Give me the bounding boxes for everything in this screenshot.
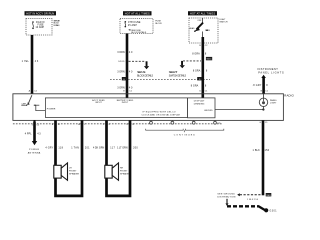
svg-text:POWER: POWER <box>29 149 39 151</box>
value label 3 ORN 40 (middle) <box>117 70 133 73</box>
svg-text:SEE GROUND: SEE GROUND <box>217 194 235 196</box>
wire (switch to power input) <box>36 105 56 110</box>
unused pin 3 <box>192 120 195 124</box>
svg-text:G: G <box>259 122 261 124</box>
svg-text:FRONT: FRONT <box>120 170 128 172</box>
svg-text:SPEAKER: SPEAKER <box>120 173 130 176</box>
svg-text:8 GRA: 8 GRA <box>192 52 200 55</box>
svg-text:C2: C2 <box>37 124 40 126</box>
svg-text:1 TAN: 1 TAN <box>71 147 79 150</box>
svg-text:40: 40 <box>129 86 133 89</box>
svg-text:FRONT: FRONT <box>69 170 77 172</box>
splice S301 <box>266 193 272 197</box>
value label 8 GRA 8 (upper) <box>192 52 207 55</box>
svg-text:DETAILS: DETAILS <box>54 24 61 27</box>
svg-text:E: E <box>123 91 125 93</box>
light switch box <box>189 18 218 43</box>
wire loop RH front speaker <box>107 120 131 195</box>
speaker SPK2 RH FRONT SPEAKER <box>105 163 131 180</box>
pin E connector C1 label <box>123 91 132 93</box>
svg-text:SWITCH DETAILS: SWITCH DETAILS <box>169 75 187 78</box>
label LIGHT SWITCH <box>219 19 227 23</box>
svg-text:SEE LIGHT: SEE LIGHT <box>169 72 178 74</box>
pin labels speaker wires right loop <box>103 124 134 126</box>
pin D connector C1 label <box>199 91 208 93</box>
fuse block box (CTSY fuse) <box>120 19 153 34</box>
wire 150 BLK segment (radio ground) <box>262 120 265 195</box>
note: if equipped with delco clock / digital display <box>142 111 181 116</box>
svg-text:8: 8 <box>109 124 110 126</box>
node accessory feed input <box>92 99 105 104</box>
pin G connector C1 label <box>259 122 268 124</box>
svg-text:HEAD: HEAD <box>189 27 195 30</box>
svg-text:40: 40 <box>129 51 133 54</box>
svg-text:INPUT: INPUT <box>122 102 129 104</box>
svg-text:C2: C2 <box>34 90 38 92</box>
in-line connector C100 dashed line <box>110 78 210 80</box>
svg-text:B: B <box>52 124 54 126</box>
svg-text:10 AMP: 10 AMP <box>36 26 45 29</box>
fuse F2 CTSY FUSE 25 AMP <box>125 21 141 27</box>
power feed label HOT AT ALL TIMES (fuse block) <box>123 11 152 15</box>
node INSTRUMENT PANEL LIGHTS feed <box>257 68 284 78</box>
lamp L1 panel light <box>259 94 277 110</box>
svg-text:BLOCK DETAILS: BLOCK DETAILS <box>137 75 153 78</box>
svg-text:SPEAKER: SPEAKER <box>69 173 79 176</box>
svg-text:201: 201 <box>85 147 90 150</box>
value label 4 PPL 43 <box>25 132 41 135</box>
label FUSE BLOCK <box>155 20 162 24</box>
value label 8 GRA 8 (middle) <box>193 70 208 73</box>
unused pin 4 <box>214 120 217 124</box>
svg-text:8: 8 <box>205 52 207 55</box>
svg-text:LED/VFD: LED/VFD <box>204 110 213 112</box>
svg-text:ANTENNA: ANTENNA <box>28 151 41 154</box>
dashed arrow to see fuse block details <box>129 61 154 77</box>
fuse block box (RADIO fuse) <box>26 19 52 36</box>
value label 1 BLK 150 <box>253 149 270 152</box>
svg-text:1 YEL: 1 YEL <box>22 60 30 63</box>
pin B connector C2 label <box>199 45 208 47</box>
power feed label HOT AT ALL TIMES (light switch) <box>188 11 217 15</box>
wire (display dimming to panel light) <box>215 109 263 111</box>
svg-text:LIGHT: LIGHT <box>270 102 277 104</box>
svg-text:C1: C1 <box>265 90 269 92</box>
wire ground path continued <box>226 199 266 210</box>
value label 8 GRA 8 (lower) <box>191 85 207 88</box>
unused pin 2 <box>171 120 174 124</box>
switch SW1 headlamp switch <box>189 18 211 37</box>
svg-text:DISTRIBUTION: DISTRIBUTION <box>217 197 235 199</box>
svg-text:PARK: PARK <box>205 29 211 32</box>
svg-text:RADIO: RADIO <box>284 93 294 97</box>
svg-text:J: J <box>32 124 33 126</box>
wire 43 YEL segment (radio fuse to radio) <box>31 35 34 94</box>
pin labels speaker wires left loop <box>52 123 85 126</box>
wire 43 PPL segment (power antenna) <box>32 122 37 145</box>
connector pin label D at C100 <box>197 77 202 81</box>
svg-text:3 ORN: 3 ORN <box>117 51 125 54</box>
svg-text:C2: C2 <box>205 45 209 47</box>
wire 40 ORN segment (ctsy fuse to radio) <box>126 34 129 98</box>
svg-text:S211: S211 <box>207 59 213 61</box>
svg-text:CLOCK AND OR DIGITAL DISPLAY: CLOCK AND OR DIGITAL DISPLAY <box>142 113 181 116</box>
svg-text:8: 8 <box>206 70 208 73</box>
svg-text:1 BLK 150: 1 BLK 150 <box>247 199 259 201</box>
radio component box U1 <box>13 93 295 120</box>
svg-text:C1: C1 <box>129 91 133 93</box>
svg-text:200: 200 <box>133 147 138 150</box>
svg-text:8 GRA: 8 GRA <box>191 85 199 88</box>
svg-text:117: 117 <box>110 147 115 150</box>
svg-text:D: D <box>199 91 201 93</box>
svg-text:1: 1 <box>84 124 85 126</box>
node antenna output pin <box>32 120 40 126</box>
svg-text:LH: LH <box>69 167 72 169</box>
svg-text:G301: G301 <box>270 211 278 213</box>
svg-text:S301: S301 <box>266 195 270 197</box>
svg-text:C: C <box>103 124 105 126</box>
value label 4 GRY 118 <box>45 147 63 150</box>
power feed label HOT IN ACCY OR RUN <box>25 11 57 15</box>
pin A connector C2 label <box>29 89 38 92</box>
svg-text:8 GRA: 8 GRA <box>193 70 201 73</box>
svg-text:4 PPL: 4 PPL <box>25 132 32 135</box>
svg-text:POWER: POWER <box>47 109 56 111</box>
svg-text:D: D <box>126 124 128 126</box>
svg-text:25 AMP: 25 AMP <box>128 24 137 27</box>
value label 1 TAN 201 <box>71 147 90 150</box>
svg-text:B: B <box>199 45 201 47</box>
svg-text:C1: C1 <box>265 122 268 124</box>
svg-text:3 ORN: 3 ORN <box>117 70 125 73</box>
svg-text:HOT AT ALL TIMES: HOT AT ALL TIMES <box>190 12 215 15</box>
svg-text:4 GRY: 4 GRY <box>45 147 53 150</box>
svg-text:8: 8 <box>205 85 207 88</box>
svg-text:4 DK GRN: 4 DK GRN <box>93 147 104 150</box>
svg-text:43: 43 <box>35 60 39 63</box>
pin N connector C1 label <box>261 90 269 92</box>
svg-text:.8 GRY: .8 GRY <box>252 84 261 87</box>
wire 8 GRY segment (panel lights feed) <box>262 78 265 94</box>
svg-text:BLOCK: BLOCK <box>155 23 162 25</box>
value label 3 ORN 40 (lower) <box>117 86 133 89</box>
connector pin label E at C100 <box>122 77 127 81</box>
node junction at panel light <box>262 108 264 110</box>
splice S205 <box>118 60 128 63</box>
dashed arrow to see ground distribution <box>217 193 260 199</box>
svg-text:1 BLK: 1 BLK <box>253 149 261 152</box>
wire 8 GRA segment (light switch to radio) <box>202 37 205 98</box>
connector C2 dashed line at radio bottom <box>13 123 223 125</box>
value label 3 ORN 40 (upper) <box>117 51 133 54</box>
svg-text:DISPLAY: DISPLAY <box>194 100 205 103</box>
svg-text:118: 118 <box>58 147 63 150</box>
svg-text:CONTINUED: CONTINUED <box>174 135 195 137</box>
svg-text:BLOCK DETAILS: BLOCK DETAILS <box>131 31 147 34</box>
svg-text:10: 10 <box>58 124 60 126</box>
note: see fuse block details (left) <box>54 20 61 26</box>
svg-text:S205: S205 <box>118 61 125 63</box>
fuse F1 RADIO FUSE 10 AMP <box>32 21 45 29</box>
svg-text:3 ORN: 3 ORN <box>117 86 125 89</box>
value label 1 YEL 43 <box>22 60 39 63</box>
switch SW2 radio on-off switch <box>21 95 39 106</box>
node POWER ANTENNA <box>28 149 41 154</box>
svg-text:SWITCH: SWITCH <box>219 21 227 23</box>
svg-text:40: 40 <box>129 70 133 73</box>
node battery feed input <box>117 99 134 104</box>
svg-text:43: 43 <box>37 132 41 135</box>
svg-text:SEE FUSE: SEE FUSE <box>137 72 146 74</box>
radio internal block (display dimming) <box>188 98 215 118</box>
svg-text:OFF: OFF <box>197 20 202 22</box>
svg-text:12: 12 <box>132 124 134 126</box>
svg-text:8: 8 <box>266 84 268 87</box>
radio internal block (amplifier) <box>45 98 187 118</box>
svg-text:HOT IN ACCY OR RUN: HOT IN ACCY OR RUN <box>26 12 54 15</box>
note: continued bracket <box>146 129 224 137</box>
dashed arrow to see light switch details <box>169 61 201 78</box>
unused pin 1 <box>150 120 153 124</box>
svg-text:RH: RH <box>120 167 124 169</box>
speaker SPK1 LH FRONT SPEAKER <box>54 163 80 180</box>
svg-text:IF EQUIPPED WITH DELCO: IF EQUIPPED WITH DELCO <box>143 111 176 113</box>
svg-text:DIMMING: DIMMING <box>194 104 205 106</box>
value label .8 GRY 8 <box>252 84 268 87</box>
splice S211 <box>202 57 213 62</box>
value label 4 DK GRN 117 <box>93 147 116 150</box>
svg-text:HOT AT ALL TIMES: HOT AT ALL TIMES <box>125 12 150 15</box>
value label 1 LT GRN 200 <box>117 147 138 150</box>
svg-text:150: 150 <box>265 149 270 152</box>
svg-text:PANEL LIGHTS: PANEL LIGHTS <box>258 71 284 74</box>
ground G301 <box>264 208 277 212</box>
svg-text:C1: C1 <box>205 91 209 93</box>
svg-text:A: A <box>29 89 31 92</box>
svg-text:INPUT: INPUT <box>95 102 102 104</box>
wire loop LH front speaker <box>56 120 83 195</box>
note: see fuse block details (inside box) <box>128 29 147 34</box>
svg-text:1 LT GRN: 1 LT GRN <box>117 147 128 150</box>
